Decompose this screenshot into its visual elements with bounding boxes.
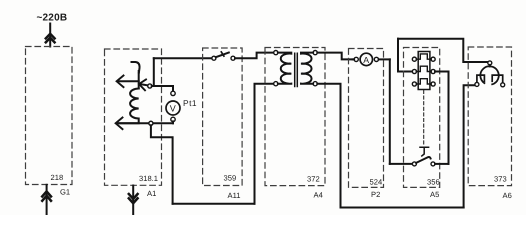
wire button feed column bbox=[389, 59, 391, 163]
transformer T2 secondary winding bbox=[301, 53, 313, 84]
transformer T2 terminal bottom-right bbox=[313, 82, 317, 86]
voltmeter PV1 bbox=[166, 101, 180, 115]
svg-text:G1: G1 bbox=[60, 188, 70, 197]
svg-text:356: 356 bbox=[427, 178, 440, 187]
transformer T2 primary winding bbox=[278, 53, 291, 84]
tube VL1 anode terminal bbox=[488, 61, 492, 65]
voltmeter top terminal bbox=[171, 91, 175, 95]
svg-text:A5: A5 bbox=[430, 190, 439, 199]
wire secondary return bottom run bbox=[341, 207, 464, 209]
wire A1 bottom lead bbox=[132, 186, 134, 216]
connector X1 pin row 2 bbox=[412, 69, 416, 73]
autotransformer T1 winding top hook bbox=[132, 62, 140, 73]
svg-text:359: 359 bbox=[224, 174, 237, 183]
transformer T2 terminal bottom-left bbox=[274, 82, 278, 86]
svg-text:~220B: ~220B bbox=[37, 13, 68, 24]
svg-text:V: V bbox=[170, 104, 176, 114]
svg-text:218: 218 bbox=[51, 173, 64, 182]
wire bottom bus of A1 bbox=[117, 122, 173, 124]
wire mains drop into G1 bbox=[49, 24, 51, 47]
autotransformer winding stem bbox=[138, 71, 140, 89]
wire branch to connector left pin bbox=[398, 71, 412, 73]
ammeter PA left terminal bbox=[354, 57, 358, 61]
wire ammeter left stub bbox=[353, 58, 355, 60]
terminal arrow lower-left (on bottom bus) bbox=[117, 122, 139, 124]
wire connector right pin to button column bbox=[435, 71, 449, 73]
wire wiper bus to voltmeter column bbox=[152, 85, 173, 87]
wiper arrow of autotransformer bbox=[141, 84, 150, 86]
connector X1 pin row 3 bbox=[412, 82, 416, 86]
svg-text:318.1: 318.1 bbox=[139, 174, 158, 183]
node on wiper bus bbox=[148, 84, 152, 88]
node on bottom bus bbox=[149, 121, 153, 125]
switch S1 blade tick bbox=[221, 52, 224, 56]
wire switch line from A1 to switch bbox=[154, 57, 212, 59]
wire button right lead bbox=[435, 163, 449, 165]
button SB blade bbox=[416, 157, 430, 163]
wire wiper feed up to switch line bbox=[153, 58, 155, 86]
button SB right contact bbox=[431, 162, 435, 166]
wire primary return: node step down and right bbox=[151, 125, 173, 204]
wire ammeter to button column bbox=[379, 58, 390, 60]
svg-text:A: A bbox=[363, 55, 369, 65]
ammeter PA right terminal bbox=[374, 57, 378, 61]
svg-text:Pt1: Pt1 bbox=[183, 98, 197, 108]
connector X1 body bbox=[418, 52, 430, 90]
svg-text:A1: A1 bbox=[147, 189, 156, 198]
transformer T2 core bbox=[295, 53, 298, 86]
voltmeter bottom terminal bbox=[171, 117, 175, 121]
arrow mains double chevron up bbox=[46, 34, 55, 43]
box G1 (dashed) bbox=[26, 47, 73, 185]
svg-text:P2: P2 bbox=[371, 190, 380, 199]
tube VL1 filament terminal left bbox=[475, 82, 479, 86]
transformer T2 terminal top-left bbox=[274, 51, 278, 55]
svg-text:A4: A4 bbox=[314, 191, 323, 200]
svg-text:A11: A11 bbox=[228, 191, 241, 200]
wire voltmeter bottom stub bbox=[172, 121, 174, 123]
mechanical link (dashed) connector to button bbox=[423, 91, 425, 146]
box P2 ammeter unit (dashed) bbox=[349, 49, 384, 188]
transformer T2 terminal top-right bbox=[313, 51, 317, 55]
switch S1 blade bbox=[216, 53, 229, 58]
wire primary return riser to transformer bbox=[255, 84, 274, 204]
arrow G1 bottom double chevron up bbox=[42, 191, 51, 200]
wire switch to transformer bbox=[235, 53, 274, 59]
wire voltmeter top stub bbox=[172, 86, 174, 92]
tube VL1 envelope bbox=[480, 66, 498, 84]
autotransformer winding bumps bbox=[130, 89, 139, 124]
svg-text:372: 372 bbox=[307, 175, 320, 184]
box A4 transformer unit (dashed) bbox=[265, 48, 325, 186]
arrow A1 bottom double chevron down bbox=[129, 194, 138, 203]
connector X1 pin row 1 bbox=[412, 57, 416, 61]
box A6 tube unit (dashed) bbox=[468, 47, 511, 186]
wire top run to tube anode bbox=[398, 39, 488, 62]
box A5 socket unit (dashed) bbox=[404, 48, 440, 188]
wire button left lead bbox=[390, 163, 413, 165]
wire secondary bottom to return riser bbox=[317, 84, 340, 208]
svg-text:A6: A6 bbox=[503, 191, 512, 200]
wire G1 bottom lead bbox=[46, 185, 48, 215]
wire primary return bottom run bbox=[173, 203, 255, 205]
svg-text:524: 524 bbox=[370, 178, 383, 187]
button SB left contact bbox=[412, 162, 416, 166]
box A1 autotransformer unit (dashed) bbox=[105, 49, 162, 185]
wire anode/connector column bbox=[397, 39, 399, 72]
wire cathode column (tube filament to secondary return) bbox=[464, 85, 476, 207]
tube VL1 left electrode bbox=[477, 75, 485, 82]
wire button right column bbox=[448, 72, 450, 164]
ammeter PA bbox=[360, 53, 372, 65]
box A11 switch unit (dashed) bbox=[203, 48, 243, 186]
tube VL1 filament terminal right bbox=[501, 83, 505, 87]
tube VL1 right electrode bbox=[492, 75, 503, 82]
terminal arrow upper-left bbox=[118, 80, 139, 82]
switch S1 left contact bbox=[212, 56, 216, 60]
button SB actuator T-bar bbox=[420, 147, 429, 156]
switch S1 right contact bbox=[231, 56, 235, 60]
wire secondary top to ammeter bbox=[317, 53, 352, 60]
svg-text:373: 373 bbox=[494, 175, 507, 184]
